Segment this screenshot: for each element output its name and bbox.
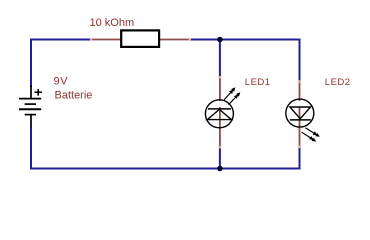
LED2 light arrow 1 [305, 128, 319, 137]
LED1 light arrow 2 [229, 92, 241, 104]
pin marker resistor left [90, 38, 93, 41]
LED2 light arrow 2 [302, 132, 317, 142]
svg-text:Batterie: Batterie [55, 89, 93, 101]
pin marker resistor right [189, 38, 192, 41]
battery B1 (9V) symbol [19, 86, 41, 128]
LED2 top lead [299, 82, 301, 102]
svg-text:LED1: LED1 [245, 77, 271, 88]
LED2 triangle (anode, pointing down) [290, 107, 311, 119]
LED1 top lead [219, 77, 221, 101]
wire resistor to top junction and LED2 (top-right horizontal + right vertical) [190, 40, 300, 82]
LED1 cathode bar [208, 108, 231, 110]
LED2 cathode bar [290, 119, 311, 121]
svg-text:9V: 9V [54, 75, 69, 87]
LED1 triangle (anode, pointing up) [207, 109, 231, 119]
LED2 body circle [286, 99, 314, 127]
junction bottom (node LED1/return) [217, 166, 223, 172]
pin marker LED2 bottom [298, 146, 301, 149]
resistor R1 right lead [157, 39, 190, 41]
wire LED1 branch top [219, 40, 221, 78]
LED1 bottom lead (through body) [219, 107, 221, 147]
resistor R1 body [121, 30, 159, 47]
wire LED1 branch bottom [219, 147, 221, 168]
pin marker LED1 bottom [219, 146, 222, 149]
resistor R1 left lead [92, 39, 123, 41]
pin marker LED1 top [219, 76, 222, 79]
LED1 body circle [205, 100, 233, 128]
wire battery positive to resistor (left vertical + top-left horizontal) [31, 40, 92, 88]
pin marker LED2 top [298, 80, 301, 83]
junction top (node LED1/resistor) [217, 37, 223, 43]
wire bottom junction to battery negative [31, 127, 220, 169]
svg-text:10 kOhm: 10 kOhm [90, 17, 135, 29]
wire LED2 to bottom junction [220, 147, 300, 169]
battery plus sign [35, 89, 42, 96]
svg-text:LED2: LED2 [325, 77, 351, 88]
LED1 light arrow 1 [224, 87, 235, 100]
LED2 bottom lead (through body) [299, 107, 301, 147]
